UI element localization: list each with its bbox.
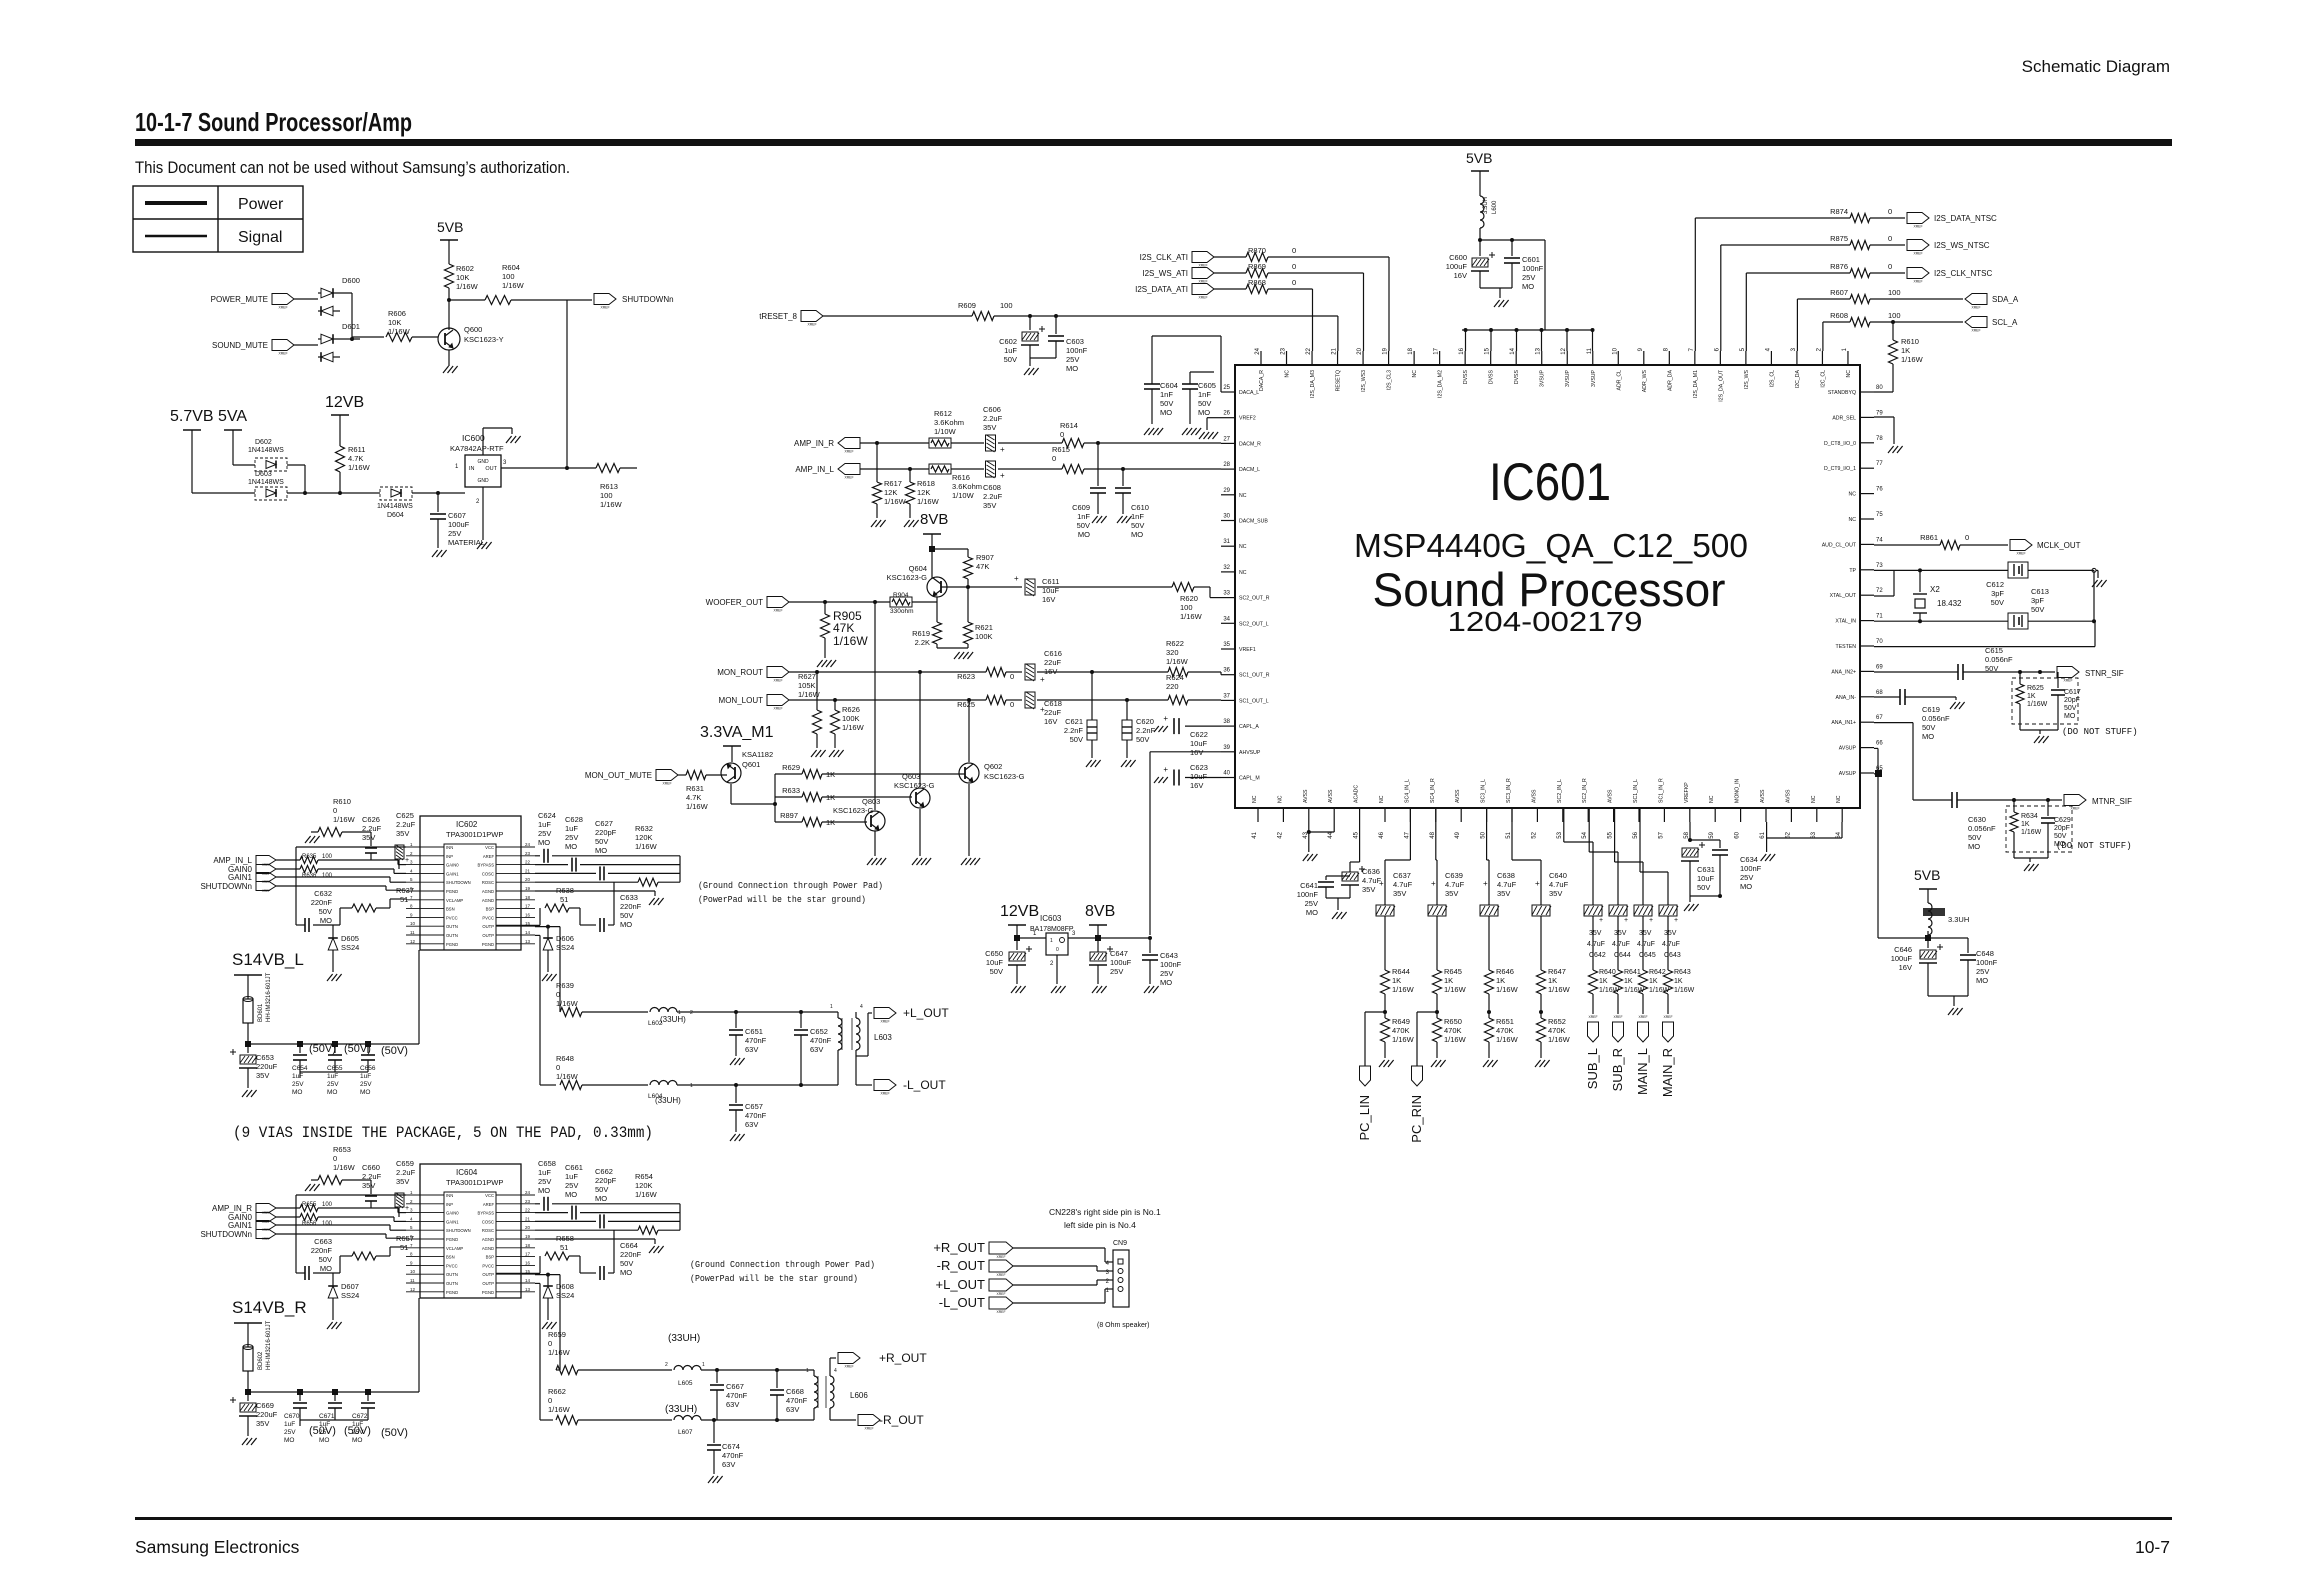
svg-text:18: 18 bbox=[1408, 347, 1414, 354]
svg-text:320: 320 bbox=[1166, 648, 1179, 657]
wire AMP_IN_R row bbox=[860, 442, 929, 444]
svg-text:1K: 1K bbox=[1649, 978, 1658, 985]
svg-text:13: 13 bbox=[525, 939, 531, 944]
ground at VREF2 pin 26 bbox=[1207, 417, 1221, 419]
wire to SC1_OUT_R pin 36 bbox=[1188, 671, 1221, 673]
svg-text:220pF: 220pF bbox=[595, 828, 617, 837]
svg-text:XREF: XREF bbox=[278, 352, 287, 356]
svg-text:10-7: 10-7 bbox=[2135, 1537, 2170, 1557]
transistor Q604 KSC1623-G bbox=[927, 577, 947, 597]
svg-text:R648: R648 bbox=[556, 1054, 574, 1063]
net +L_OUT output flag bbox=[855, 1050, 857, 1056]
svg-text:R634: R634 bbox=[2021, 813, 2038, 820]
svg-text:16V: 16V bbox=[1042, 595, 1055, 604]
svg-text:4: 4 bbox=[834, 1368, 837, 1374]
svg-text:R626: R626 bbox=[842, 705, 860, 714]
svg-text:R625: R625 bbox=[2027, 685, 2044, 692]
svg-text:4.7uF: 4.7uF bbox=[1549, 880, 1569, 889]
svg-text:IC601: IC601 bbox=[1489, 453, 1611, 512]
capacitor C613 3pF (boxed) bbox=[2008, 613, 2028, 629]
svg-text:0: 0 bbox=[1052, 454, 1056, 463]
svg-text:C634: C634 bbox=[1740, 855, 1758, 864]
svg-text:R611: R611 bbox=[348, 445, 365, 454]
svg-text:DACA_L: DACA_L bbox=[1239, 390, 1259, 396]
svg-text:R640: R640 bbox=[1599, 969, 1616, 976]
svg-text:C661: C661 bbox=[565, 1163, 583, 1172]
svg-text:1/16W: 1/16W bbox=[917, 497, 940, 506]
svg-text:1uF: 1uF bbox=[292, 1073, 303, 1080]
svg-text:17: 17 bbox=[525, 1252, 531, 1257]
svg-text:1K: 1K bbox=[1599, 978, 1608, 985]
svg-text:I2S_CLK_ATI: I2S_CLK_ATI bbox=[1140, 253, 1188, 262]
svg-text:0: 0 bbox=[1056, 947, 1059, 953]
svg-text:VCC: VCC bbox=[485, 1193, 494, 1198]
svg-text:+: + bbox=[1000, 471, 1005, 480]
svg-text:25V: 25V bbox=[565, 833, 578, 842]
svg-text:1/10W: 1/10W bbox=[934, 427, 957, 436]
svg-text:Q603: Q603 bbox=[902, 772, 920, 781]
svg-text:GAIN1: GAIN1 bbox=[446, 871, 459, 876]
svg-text:(33UH): (33UH) bbox=[655, 1096, 681, 1105]
svg-text:R654: R654 bbox=[635, 1172, 653, 1181]
svg-text:POWER_MUTE: POWER_MUTE bbox=[211, 295, 268, 304]
svg-text:HH-IM3216-601JT: HH-IM3216-601JT bbox=[266, 1320, 272, 1370]
capacitor C634 100nF bbox=[1712, 849, 1728, 851]
svg-text:(50V): (50V) bbox=[309, 1425, 336, 1437]
svg-text:(8 Ohm speaker): (8 Ohm speaker) bbox=[1097, 1322, 1150, 1329]
svg-text:C626: C626 bbox=[362, 815, 380, 824]
svg-text:XREF: XREF bbox=[2063, 679, 2072, 683]
svg-text:C643: C643 bbox=[1160, 951, 1178, 960]
svg-text:GND: GND bbox=[477, 478, 489, 484]
svg-text:220uF: 220uF bbox=[256, 1410, 278, 1419]
svg-text:OUTN: OUTN bbox=[446, 933, 458, 938]
svg-text:0: 0 bbox=[1888, 234, 1892, 243]
svg-text:OUTN: OUTN bbox=[446, 924, 458, 929]
wire Q603 collector up to MON_ROUT bbox=[919, 672, 921, 788]
svg-text:+: + bbox=[405, 857, 409, 864]
svg-text:4.7uF: 4.7uF bbox=[1637, 941, 1655, 948]
capacitor C674 470nF bbox=[713, 1420, 715, 1443]
svg-text:KSC1623-G: KSC1623-G bbox=[833, 806, 874, 815]
svg-text:AVSS: AVSS bbox=[1608, 789, 1614, 803]
svg-text:1K: 1K bbox=[2021, 821, 2030, 828]
svg-text:16V: 16V bbox=[1899, 963, 1912, 972]
IC601 bottom edge pins 41..64 bbox=[1257, 808, 1259, 822]
wire I2S_WS_NTSC to IC601 bbox=[1721, 244, 1850, 246]
svg-text:4.7K: 4.7K bbox=[348, 454, 363, 463]
wire 5.7VB down to D603 bbox=[191, 430, 193, 493]
svg-text:D606: D606 bbox=[556, 934, 574, 943]
svg-text:18: 18 bbox=[525, 1243, 531, 1248]
svg-text:DACM_L: DACM_L bbox=[1239, 467, 1260, 473]
svg-text:C643: C643 bbox=[1664, 952, 1681, 959]
svg-text:CAPL_A: CAPL_A bbox=[1239, 724, 1259, 730]
capacitor C645 4.7uF (pol) bbox=[1634, 905, 1652, 916]
svg-text:OUTP: OUTP bbox=[482, 1281, 494, 1286]
do-not-stuff box R625/C617 bbox=[2012, 678, 2078, 724]
svg-text:22: 22 bbox=[525, 1208, 531, 1213]
svg-text:R644: R644 bbox=[1392, 967, 1410, 976]
svg-text:BA178M08FP: BA178M08FP bbox=[1030, 926, 1074, 933]
svg-text:63V: 63V bbox=[745, 1120, 758, 1129]
svg-text:100uF: 100uF bbox=[1891, 954, 1913, 963]
svg-text:XREF: XREF bbox=[773, 679, 782, 683]
svg-text:2.2uF: 2.2uF bbox=[983, 414, 1003, 423]
crystal X2 18.432 bbox=[1919, 570, 1921, 592]
svg-text:1K: 1K bbox=[1392, 976, 1401, 985]
svg-text:25V: 25V bbox=[1976, 967, 1989, 976]
svg-text:AGND: AGND bbox=[482, 889, 494, 894]
svg-text:MO: MO bbox=[1078, 530, 1090, 539]
svg-text:0: 0 bbox=[1292, 278, 1296, 287]
resistor R656 100 bbox=[276, 1216, 300, 1218]
wire XTAL_OUT riser bbox=[1874, 595, 1894, 597]
svg-text:2.2uF: 2.2uF bbox=[362, 824, 382, 833]
svg-text:10: 10 bbox=[1612, 347, 1618, 354]
svg-text:35V: 35V bbox=[396, 1177, 409, 1186]
svg-text:C624: C624 bbox=[538, 811, 556, 820]
svg-text:XREF: XREF bbox=[1663, 1015, 1672, 1019]
svg-text:R861: R861 bbox=[1920, 533, 1938, 542]
capacitor C672 1uF bbox=[367, 1392, 369, 1401]
wire node to R611/D604 bbox=[305, 492, 340, 494]
wire pin to column C640 bbox=[1511, 808, 1513, 822]
svg-text:(DO NOT STUFF): (DO NOT STUFF) bbox=[2056, 841, 2132, 851]
svg-text:16V: 16V bbox=[1190, 781, 1203, 790]
svg-text:35V: 35V bbox=[1614, 930, 1627, 937]
svg-text:220nF: 220nF bbox=[620, 902, 642, 911]
svg-text:L606: L606 bbox=[850, 1391, 868, 1400]
svg-text:25V: 25V bbox=[538, 1177, 551, 1186]
svg-text:10: 10 bbox=[410, 1269, 416, 1274]
svg-text:45: 45 bbox=[1354, 831, 1360, 838]
svg-text:C641: C641 bbox=[1300, 881, 1318, 890]
svg-text:3VSUP: 3VSUP bbox=[1565, 369, 1571, 387]
svg-text:GAIN1: GAIN1 bbox=[228, 873, 253, 882]
svg-text:1: 1 bbox=[1050, 938, 1053, 944]
svg-text:2: 2 bbox=[690, 1010, 693, 1016]
svg-text:1uF: 1uF bbox=[565, 824, 578, 833]
svg-text:C633: C633 bbox=[620, 893, 638, 902]
svg-text:C668: C668 bbox=[786, 1387, 804, 1396]
svg-text:14: 14 bbox=[1510, 347, 1516, 354]
svg-text:36: 36 bbox=[1223, 668, 1230, 674]
svg-text:10uF: 10uF bbox=[1190, 739, 1208, 748]
capacitor C643 100nF bbox=[1149, 938, 1151, 953]
capacitor C654 1uF bbox=[299, 1044, 301, 1053]
net PC_RIN flag (rotated) bbox=[1417, 1011, 1437, 1013]
svg-text:MO: MO bbox=[595, 846, 607, 855]
svg-text:0: 0 bbox=[548, 1339, 552, 1348]
svg-text:SC2_OUT_L: SC2_OUT_L bbox=[1239, 621, 1269, 627]
svg-text:S14VB_L: S14VB_L bbox=[232, 950, 304, 969]
svg-text:C625: C625 bbox=[396, 811, 414, 820]
svg-text:XREF: XREF bbox=[2016, 552, 2025, 556]
net SDA_A flag bbox=[1870, 298, 1963, 300]
svg-text:78: 78 bbox=[1876, 436, 1883, 442]
ground Q803 emitter bbox=[874, 831, 876, 856]
wire C660 branch to IN bbox=[370, 1207, 372, 1209]
footer rule bbox=[135, 1517, 2172, 1520]
svg-text:C628: C628 bbox=[565, 815, 583, 824]
svg-text:1/16W: 1/16W bbox=[333, 815, 356, 824]
svg-text:AREF: AREF bbox=[483, 1202, 495, 1207]
wire to C600/C601 and 3VSUP rail bbox=[1480, 239, 1545, 241]
svg-text:XREF: XREF bbox=[996, 1292, 1005, 1296]
svg-text:KSC1623-G: KSC1623-G bbox=[894, 781, 935, 790]
svg-text:50V: 50V bbox=[1070, 735, 1083, 744]
svg-text:STANDBYQ: STANDBYQ bbox=[1828, 390, 1856, 396]
svg-text:COSC: COSC bbox=[482, 1219, 494, 1224]
svg-text:1204-002179: 1204-002179 bbox=[1448, 606, 1643, 637]
svg-text:AVSS: AVSS bbox=[1760, 789, 1766, 803]
ground under Q600 bbox=[448, 350, 450, 366]
svg-text:I2S_WS3: I2S_WS3 bbox=[1361, 370, 1367, 392]
svg-text:51: 51 bbox=[560, 895, 568, 904]
svg-text:1/16W: 1/16W bbox=[2027, 701, 2048, 708]
resistor R870 0 bbox=[1214, 256, 1246, 258]
svg-text:30: 30 bbox=[1223, 514, 1230, 520]
svg-text:3pF: 3pF bbox=[2031, 596, 2044, 605]
svg-text:XREF: XREF bbox=[262, 1237, 271, 1241]
svg-text:MAIN_R: MAIN_R bbox=[1660, 1048, 1675, 1097]
svg-text:R897: R897 bbox=[780, 811, 798, 820]
svg-text:15: 15 bbox=[1485, 347, 1491, 354]
resistor R640 1K bbox=[1589, 970, 1598, 994]
svg-text:(DO NOT STUFF): (DO NOT STUFF) bbox=[2062, 727, 2138, 737]
svg-text:5VB: 5VB bbox=[437, 219, 463, 235]
ground under C600/C601 bbox=[1480, 287, 1512, 289]
svg-text:C640: C640 bbox=[1549, 871, 1567, 880]
svg-text:25V: 25V bbox=[1110, 967, 1123, 976]
svg-text:R653: R653 bbox=[333, 1145, 351, 1154]
svg-text:75: 75 bbox=[1876, 512, 1883, 518]
svg-text:NC: NC bbox=[1849, 492, 1857, 498]
resistor R631 4.7K bbox=[678, 774, 686, 776]
svg-text:1/16W: 1/16W bbox=[333, 1163, 356, 1172]
svg-text:74: 74 bbox=[1876, 537, 1883, 543]
svg-text:C660: C660 bbox=[362, 1163, 380, 1172]
capacitor C610 1nF bbox=[1122, 469, 1124, 486]
svg-text:18: 18 bbox=[525, 895, 531, 900]
wire OUTN to R662 bbox=[535, 1282, 540, 1284]
svg-text:25V: 25V bbox=[1066, 355, 1079, 364]
svg-text:R622: R622 bbox=[1166, 639, 1184, 648]
svg-text:RESETQ: RESETQ bbox=[1336, 370, 1342, 391]
svg-text:MONO_IN: MONO_IN bbox=[1735, 779, 1741, 803]
svg-text:MSP4440G_QA_C12_500: MSP4440G_QA_C12_500 bbox=[1354, 527, 1748, 564]
wire ANA_IN1+ pin 67 to MTNR branch bbox=[1874, 722, 1913, 724]
resistor R869 0 bbox=[1214, 272, 1246, 274]
svg-text:VCLAMP: VCLAMP bbox=[446, 1246, 463, 1251]
svg-text:2: 2 bbox=[665, 1362, 668, 1368]
svg-text:C609: C609 bbox=[1072, 503, 1090, 512]
svg-text:100uF: 100uF bbox=[448, 520, 470, 529]
wire ADR_SEL to ground bbox=[1874, 416, 1894, 418]
svg-text:SCL_A: SCL_A bbox=[1992, 318, 2018, 327]
svg-text:-R_OUT: -R_OUT bbox=[879, 1413, 924, 1427]
svg-text:R659: R659 bbox=[548, 1330, 566, 1339]
net +R_OUT output flag bbox=[829, 1358, 831, 1370]
svg-text:C642: C642 bbox=[1589, 952, 1606, 959]
svg-text:63V: 63V bbox=[810, 1045, 823, 1054]
capacitor C601 100nF bbox=[1511, 240, 1513, 256]
svg-text:ANA_IN1+: ANA_IN1+ bbox=[1831, 720, 1856, 726]
svg-text:INP: INP bbox=[446, 854, 453, 859]
svg-text:CN9: CN9 bbox=[1113, 1240, 1127, 1247]
IC IC601 body outline bbox=[1235, 365, 1860, 808]
svg-text:MO: MO bbox=[1131, 530, 1143, 539]
svg-text:MO: MO bbox=[1522, 282, 1534, 291]
svg-text:R620: R620 bbox=[1180, 594, 1198, 603]
svg-text:L607: L607 bbox=[678, 1429, 693, 1436]
svg-text:41: 41 bbox=[1252, 831, 1258, 838]
svg-text:SS24: SS24 bbox=[556, 1291, 574, 1300]
capacitor C609 1nF bbox=[1097, 443, 1099, 486]
wire pin to column C643 bbox=[1639, 808, 1641, 822]
svg-text:12: 12 bbox=[1561, 347, 1567, 354]
svg-text:71: 71 bbox=[1876, 614, 1883, 620]
svg-text:C631: C631 bbox=[1697, 865, 1715, 874]
svg-text:R627: R627 bbox=[798, 672, 816, 681]
svg-text:R629: R629 bbox=[782, 763, 800, 772]
capacitor C622 10uF at CAPL_A bbox=[1185, 725, 1221, 727]
svg-text:R635: R635 bbox=[302, 854, 317, 860]
resistor R610 1K (standby pullup) bbox=[1891, 320, 1895, 324]
ground under C641/C636 bbox=[1326, 897, 1350, 899]
svg-text:20pF: 20pF bbox=[2054, 825, 2070, 832]
svg-text:(50V): (50V) bbox=[344, 1043, 371, 1055]
svg-text:R604: R604 bbox=[502, 263, 520, 272]
svg-text:35V: 35V bbox=[1497, 889, 1510, 898]
svg-text:BYPASS: BYPASS bbox=[478, 863, 495, 868]
svg-text:C650: C650 bbox=[985, 949, 1003, 958]
wire tRESET to R609 bbox=[823, 315, 972, 317]
wire POWER_MUTE to D600 bbox=[294, 298, 318, 300]
svg-text:MO: MO bbox=[2064, 713, 2076, 720]
svg-text:PGND: PGND bbox=[446, 1237, 458, 1242]
supply rail to DVSS/3VSUP pins bbox=[1462, 329, 1592, 331]
wire I2S_CLK_ATI to pin bbox=[1268, 256, 1389, 258]
svg-text:50: 50 bbox=[1481, 831, 1487, 838]
capacitor C636 4.7uF (pol) bbox=[1342, 872, 1358, 881]
svg-text:R612: R612 bbox=[934, 409, 952, 418]
svg-text:470K: 470K bbox=[1496, 1026, 1514, 1035]
svg-text:XREF: XREF bbox=[1198, 296, 1207, 300]
svg-text:PGND: PGND bbox=[446, 942, 458, 947]
net PC_LIN flag (rotated) bbox=[1365, 1011, 1385, 1013]
wire Q604 emitter to R619 bbox=[936, 597, 938, 622]
svg-text:220nF: 220nF bbox=[620, 1250, 642, 1259]
svg-text:39: 39 bbox=[1223, 745, 1230, 751]
svg-text:80: 80 bbox=[1876, 385, 1883, 391]
svg-text:R610: R610 bbox=[1901, 337, 1919, 346]
svg-text:31: 31 bbox=[1223, 539, 1230, 545]
svg-text:100nF: 100nF bbox=[1066, 346, 1088, 355]
svg-text:MAIN_L: MAIN_L bbox=[1635, 1048, 1650, 1095]
svg-text:IN: IN bbox=[469, 466, 475, 472]
wire TP pin 73 to crystal top rail bbox=[1874, 569, 2008, 571]
svg-text:3.6Kohm: 3.6Kohm bbox=[952, 482, 982, 491]
svg-text:16: 16 bbox=[525, 1260, 531, 1265]
wire R614 to DACM_R pin 27 bbox=[1084, 442, 1221, 444]
svg-text:3pF: 3pF bbox=[1991, 589, 2004, 598]
svg-text:C638: C638 bbox=[1497, 871, 1515, 880]
svg-text:35V: 35V bbox=[1664, 930, 1677, 937]
svg-text:TP: TP bbox=[1849, 568, 1856, 574]
svg-text:NC: NC bbox=[1239, 570, 1247, 576]
svg-text:Schematic Diagram: Schematic Diagram bbox=[2022, 57, 2170, 76]
svg-text:NC: NC bbox=[1709, 795, 1715, 803]
svg-text:+: + bbox=[1000, 445, 1005, 454]
svg-text:1: 1 bbox=[830, 1004, 833, 1010]
svg-text:35V: 35V bbox=[396, 829, 409, 838]
svg-text:47K: 47K bbox=[976, 562, 989, 571]
svg-text:4.7uF: 4.7uF bbox=[1612, 941, 1630, 948]
svg-text:XREF: XREF bbox=[773, 609, 782, 613]
svg-text:XREF: XREF bbox=[278, 306, 287, 310]
svg-text:50V: 50V bbox=[1160, 399, 1173, 408]
wire pin to column C639 bbox=[1435, 808, 1437, 822]
capacitor C656 1uF bbox=[367, 1044, 369, 1053]
svg-text:D_CT9_I/O_1: D_CT9_I/O_1 bbox=[1824, 466, 1856, 472]
svg-text:25V: 25V bbox=[327, 1081, 339, 1088]
svg-text:OUTP: OUTP bbox=[482, 924, 494, 929]
svg-text:1nF: 1nF bbox=[1198, 390, 1211, 399]
wire XTAL_IN row bbox=[1874, 620, 2008, 622]
svg-text:1uF: 1uF bbox=[360, 1073, 371, 1080]
capacitor C616 22uF (pol,h) bbox=[1025, 664, 1035, 681]
svg-text:I2C_CL: I2C_CL bbox=[1820, 370, 1826, 388]
svg-text:5VB: 5VB bbox=[1914, 867, 1940, 883]
svg-text:C639: C639 bbox=[1445, 871, 1463, 880]
svg-text:MON_LOUT: MON_LOUT bbox=[719, 696, 764, 705]
svg-text:XREF: XREF bbox=[880, 1020, 889, 1024]
svg-text:XREF: XREF bbox=[600, 306, 609, 310]
svg-text:XREF: XREF bbox=[844, 476, 853, 480]
svg-text:DACM_R: DACM_R bbox=[1239, 441, 1261, 447]
svg-text:PGND: PGND bbox=[482, 1290, 494, 1295]
svg-text:SS24: SS24 bbox=[341, 943, 359, 952]
capacitor C612 3pF (boxed) bbox=[2008, 562, 2028, 578]
svg-text:C621: C621 bbox=[1065, 717, 1083, 726]
svg-text:1/16W: 1/16W bbox=[1674, 987, 1695, 994]
svg-text:C648: C648 bbox=[1976, 949, 1994, 958]
svg-text:50V: 50V bbox=[1136, 735, 1149, 744]
svg-text:35V: 35V bbox=[362, 833, 375, 842]
svg-text:MO: MO bbox=[1160, 978, 1172, 987]
svg-text:46: 46 bbox=[1379, 831, 1385, 838]
transformer L603 bbox=[837, 1012, 839, 1018]
svg-text:4.7uF: 4.7uF bbox=[1662, 941, 1680, 948]
wire AMP_IN_L row bbox=[860, 468, 929, 470]
ground under DNS box 2 bbox=[2014, 857, 2048, 859]
svg-text:220: 220 bbox=[1166, 682, 1179, 691]
svg-text:50V: 50V bbox=[1697, 883, 1710, 892]
svg-text:XTAL_IN: XTAL_IN bbox=[1835, 619, 1856, 625]
svg-text:25V: 25V bbox=[292, 1081, 304, 1088]
svg-text:R639: R639 bbox=[556, 981, 574, 990]
ground under C631/C634 bbox=[1690, 895, 1720, 897]
svg-text:4.7uF: 4.7uF bbox=[1445, 880, 1465, 889]
svg-text:16V: 16V bbox=[1190, 748, 1203, 757]
svg-text:AHVSUP: AHVSUP bbox=[1239, 750, 1261, 756]
capacitor C657 470nF bbox=[735, 1085, 737, 1103]
svg-text:51: 51 bbox=[1506, 831, 1512, 838]
capacitor C603 100nF bbox=[1055, 316, 1057, 334]
svg-text:XREF: XREF bbox=[844, 1365, 853, 1369]
